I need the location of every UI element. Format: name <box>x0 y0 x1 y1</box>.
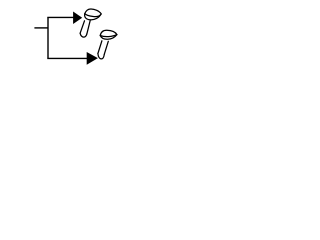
screw 1 (top) shank <box>80 21 90 38</box>
wire: top branch <box>47 16 73 18</box>
screw 2 (bottom) shank <box>98 41 108 59</box>
screw 2 (bottom) head face <box>100 30 117 39</box>
arrow 1 (to top screw) <box>73 12 82 25</box>
screw 1 (top) head face <box>85 9 102 20</box>
wire: left stub <box>34 27 48 29</box>
wire: vertical bus <box>47 17 49 58</box>
wire: bottom branch <box>47 57 87 59</box>
arrow 2 (to bottom screw) <box>87 52 98 65</box>
